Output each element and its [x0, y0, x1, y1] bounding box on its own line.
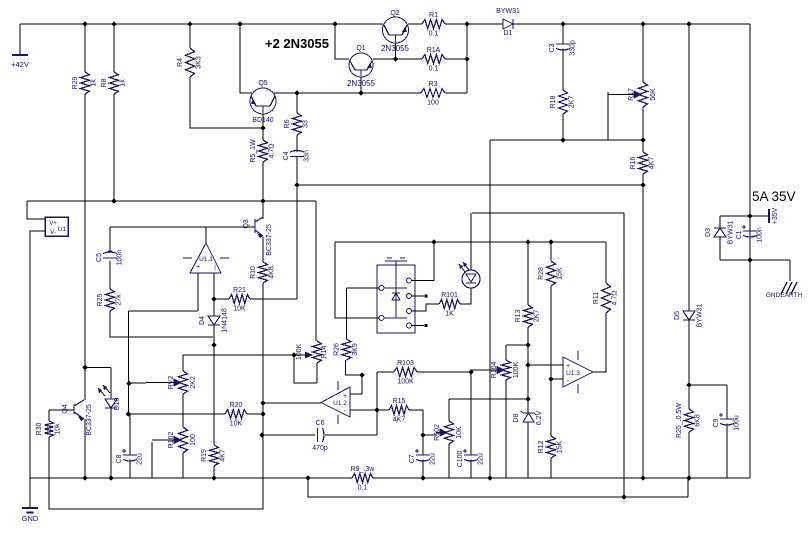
- wire relay contact to y242: [411, 242, 434, 281]
- wire y242 to R28: [550, 242, 552, 261]
- svg-text:R17: R17: [628, 88, 635, 101]
- svg-text:4K7: 4K7: [649, 157, 656, 170]
- potentiometer R14 100K: [313, 341, 322, 363]
- svg-text:4.7Ω: 4.7Ω: [612, 291, 619, 306]
- relay RE1: [377, 265, 415, 333]
- wire R10 to R21 node: [262, 283, 264, 299]
- svg-text:R11: R11: [593, 292, 600, 304]
- wire U1.1 output node y227: [110, 226, 254, 228]
- wire U1.3 - input: [552, 378, 563, 380]
- wire top rail R1 to D1: [445, 23, 503, 25]
- svg-text:6.2V: 6.2V: [536, 410, 543, 425]
- resistor R29: [81, 72, 90, 94]
- wire Q1 to Q2 node: [373, 58, 396, 60]
- svg-text:V-: V-: [50, 230, 56, 236]
- relay contact pins: [379, 286, 384, 291]
- wire to D10: [85, 367, 111, 369]
- svg-text:2K7: 2K7: [534, 310, 541, 323]
- junction + input/R26: [359, 372, 364, 377]
- resistor R1: [422, 20, 445, 29]
- junction rail/R8: [111, 21, 116, 26]
- junction D4 node: [211, 342, 216, 347]
- transistor Q4 BC337-25: [49, 409, 74, 411]
- svg-text:+2 2N3055: +2 2N3055: [265, 36, 329, 51]
- wire node y242 horizontal: [335, 241, 606, 243]
- wire R3 right: [445, 92, 467, 94]
- +42V supply terminal: [19, 24, 21, 55]
- svg-text:Q2: Q2: [390, 10, 399, 17]
- svg-text:R29: R29: [72, 76, 79, 89]
- diode D3: [714, 228, 726, 237]
- wire relay contact stub 2: [411, 325, 424, 327]
- svg-text:GNDEARTH: GNDEARTH: [766, 292, 803, 299]
- svg-text:R1A: R1A: [427, 47, 441, 54]
- capacitor C8: [123, 454, 137, 456]
- resistor R16: [639, 152, 648, 174]
- op-amp U1.2: [321, 387, 350, 417]
- capacitor C5: [103, 252, 117, 254]
- svg-text:R21: R21: [233, 287, 246, 294]
- junction Q2/Q1 rail: [393, 56, 398, 61]
- wire y399 R102 to D8: [449, 398, 528, 400]
- svg-text:0.1: 0.1: [358, 485, 368, 492]
- svg-text:+: +: [196, 264, 200, 271]
- op-amp U1.3: [563, 357, 593, 387]
- wire U1.2 - input: [350, 409, 377, 411]
- capacitor C7: [416, 454, 430, 456]
- svg-text:33: 33: [303, 120, 310, 128]
- junction C6 left: [259, 432, 264, 437]
- resistor R28: [547, 261, 556, 286]
- svg-text:R5_1W: R5_1W: [250, 139, 257, 163]
- resistor R101: [439, 300, 460, 309]
- resistor R10: [259, 262, 268, 283]
- svg-text:4K7: 4K7: [393, 417, 406, 424]
- svg-text:6K8: 6K8: [695, 414, 702, 427]
- svg-text:U1: U1: [58, 226, 67, 233]
- junction R20: [260, 411, 265, 416]
- wire R8 to node y201: [113, 94, 115, 201]
- svg-text:100K: 100K: [513, 362, 520, 379]
- wire C100 to ground rail: [470, 460, 472, 479]
- svg-text:R15: R15: [393, 398, 406, 405]
- capacitor C100: [464, 454, 478, 456]
- wire Q4 emitter to ground rail: [84, 419, 86, 478]
- wire R18 to y140 node: [562, 114, 564, 140]
- resistor R21: [229, 295, 250, 304]
- svg-text:+42V: +42V: [11, 60, 29, 69]
- svg-text:R30: R30: [36, 422, 43, 435]
- wire R104 top lead: [505, 345, 507, 360]
- svg-text:0.1: 0.1: [429, 66, 439, 73]
- wire D5 to R25 node: [688, 319, 690, 385]
- junction C7/ground: [420, 475, 425, 480]
- resistor R4: [186, 48, 195, 77]
- potentiometer R102: [179, 427, 188, 453]
- junction R28 top: [548, 239, 553, 244]
- svg-text:10K: 10K: [233, 306, 246, 313]
- svg-text:100K: 100K: [397, 379, 414, 386]
- terminal square 1: [424, 294, 427, 297]
- wire rail to C3: [562, 24, 564, 44]
- junction R8 bottom: [111, 198, 116, 203]
- wire RV2 to R102: [182, 394, 184, 427]
- wire - to R15: [377, 409, 389, 411]
- resistor R6: [293, 113, 302, 135]
- svg-text:C100: C100: [457, 451, 464, 468]
- junction R25/ground: [686, 475, 691, 480]
- wire R14 bottom lead: [316, 363, 318, 383]
- wire to V+ pin of U1 power box: [27, 201, 45, 219]
- svg-text:2K2: 2K2: [190, 376, 197, 389]
- svg-text:Q1: Q1: [356, 45, 365, 52]
- wire relay contact to R101: [411, 304, 439, 311]
- wire RV2 wiper to x129 column: [129, 382, 146, 384]
- resistor R15: [389, 406, 409, 415]
- wire R26 to U1.2 + node: [346, 360, 363, 375]
- resistor R12: [547, 436, 556, 458]
- junction rail/R4: [187, 21, 192, 26]
- wire rail to Q5 emitter: [240, 24, 252, 93]
- junction box bottom/x750: [747, 257, 752, 262]
- wire D10 top lead: [110, 368, 112, 400]
- svg-text:R4: R4: [177, 58, 184, 67]
- relay internal diode: [392, 293, 400, 300]
- wire R14 bottom loop: [294, 355, 317, 383]
- wire R101 to LED: [460, 288, 471, 304]
- transistor Q3 BC337-25: [230, 226, 255, 228]
- wire column to ground rail: [262, 414, 264, 478]
- svg-text:D8: D8: [513, 413, 520, 422]
- wire U1.1 + input down: [197, 273, 199, 311]
- wire R20 right: [247, 413, 262, 415]
- wire node y140 horizontal: [490, 139, 643, 141]
- svg-text:D4: D4: [199, 316, 206, 325]
- wire top rail left: [20, 23, 383, 25]
- wire D3 top lead: [719, 216, 721, 228]
- resistor R25 0.5W: [685, 409, 694, 432]
- wire to D4: [213, 299, 215, 316]
- resistor R103: [394, 368, 417, 377]
- junction Q4/ground: [82, 475, 87, 480]
- wire C6 left: [263, 434, 315, 436]
- wire: [262, 403, 264, 414]
- wire R102 to ground rail: [182, 453, 184, 478]
- svg-text:4K7: 4K7: [220, 449, 227, 462]
- wire R5 to node y201: [262, 162, 264, 201]
- junction - input: [548, 376, 553, 381]
- wire D3 bottom lead: [719, 236, 721, 260]
- junction D5/C9 line: [686, 382, 691, 387]
- junction Q1 base/R3 line: [358, 90, 363, 95]
- wire U1.2 + input up: [350, 375, 362, 394]
- junction C7/R102 wiper: [420, 432, 425, 437]
- junction x490/ground: [487, 475, 492, 480]
- svg-text:V+: V+: [49, 221, 57, 227]
- wire Q5 base lead: [262, 114, 264, 128]
- wire to C8: [129, 414, 131, 455]
- resistor R3: [421, 89, 445, 98]
- svg-text:R19: R19: [201, 449, 208, 462]
- junction rail/R17: [640, 21, 645, 26]
- svg-text:22u: 22u: [137, 453, 144, 465]
- wire C7 to ground rail: [422, 460, 424, 479]
- wire R30 down: [48, 437, 50, 478]
- op-amp power box U1 V+/V-: [45, 217, 68, 236]
- wire rail to R29: [84, 24, 86, 72]
- wire C100 top lead: [470, 372, 472, 455]
- resistor R19: [210, 445, 219, 466]
- wire lower ground return y509: [50, 478, 263, 509]
- resistor R9 3W: [352, 474, 373, 483]
- wire node y213 horizontal: [472, 212, 624, 214]
- wire rail to R8: [113, 24, 115, 72]
- wire R11 to U1.3 output: [593, 313, 606, 372]
- wire R29 to Q4 collector node: [84, 94, 86, 368]
- wire U1.1 output lead: [205, 227, 207, 243]
- wire C6 right to feedback column: [325, 434, 377, 436]
- junction y345: [525, 342, 530, 347]
- wire R103 to wiper node: [417, 371, 471, 373]
- wire R20 left: [130, 413, 225, 415]
- resistor R18: [559, 90, 568, 114]
- junction R103/R104 wiper/C100: [468, 369, 473, 374]
- resistor R11: [602, 283, 611, 313]
- potentiometer R17 56K: [639, 82, 648, 107]
- wire Q4 base to R30: [48, 410, 50, 421]
- junction x624/y497: [621, 494, 626, 499]
- svg-text:10k: 10k: [55, 423, 62, 435]
- svg-text:33n: 33n: [304, 150, 311, 162]
- resistor R20: [225, 410, 247, 419]
- wire D3 box bottom to earth: [720, 259, 790, 261]
- wire R104 bottom to ground rail: [505, 380, 507, 478]
- wire D3 box top: [720, 215, 750, 217]
- wire C9 top lead: [726, 385, 728, 419]
- junction R18/y140: [560, 137, 565, 142]
- svg-text:C8: C8: [116, 454, 123, 463]
- svg-text:R13: R13: [515, 309, 522, 322]
- svg-text:C1: C1: [736, 230, 743, 239]
- wire to R5: [262, 128, 264, 140]
- capacitor C6: [317, 428, 319, 442]
- junction C4/y185: [294, 182, 299, 187]
- svg-text:U1.1: U1.1: [199, 256, 213, 263]
- svg-text:3K9: 3K9: [352, 343, 359, 356]
- wire R102 bottom to ground rail: [448, 444, 450, 478]
- resistor R1A: [422, 55, 445, 64]
- junction R15/- input: [374, 407, 379, 412]
- wire to C9: [689, 384, 727, 386]
- wire rail down to Q1: [335, 24, 349, 59]
- wire R102 wiper to ground rail: [151, 442, 153, 478]
- wire y242 corner to relay contact: [335, 242, 379, 318]
- junction rail to Q1: [332, 21, 337, 26]
- svg-text:100n: 100n: [757, 227, 764, 243]
- svg-text:R28: R28: [538, 267, 545, 280]
- svg-text:100K: 100K: [296, 344, 303, 361]
- wire y242 to R11: [605, 242, 607, 283]
- wire to R25: [688, 385, 690, 409]
- wire return y497: [308, 478, 688, 497]
- svg-text:C7: C7: [409, 454, 416, 463]
- wire top rail D1 to right corner: [513, 23, 750, 25]
- junction D10/ground: [108, 475, 113, 480]
- wire x643 down to ground rail: [642, 185, 644, 478]
- wire right join column R1/R1A/R3: [466, 24, 468, 93]
- svg-text:R20: R20: [230, 402, 243, 409]
- wire feedback column x377: [376, 372, 378, 435]
- junction - input/R21/D4: [211, 296, 216, 301]
- capacitor C9: [720, 418, 734, 420]
- wire D4 to R19: [213, 325, 215, 445]
- svg-text:3K3: 3K3: [196, 56, 203, 69]
- capacitor C1: [743, 230, 757, 232]
- svg-text:U1.3: U1.3: [566, 370, 580, 377]
- wire Q4 collector: [84, 368, 86, 401]
- junction Q5 base/R4/R5: [260, 125, 265, 130]
- svg-text:1N4148: 1N4148: [222, 308, 229, 333]
- junction R19/ground: [211, 475, 216, 480]
- wire R30 to y509 return: [49, 478, 50, 509]
- wire top rail between Q2 and R1: [408, 23, 422, 25]
- svg-text:C9: C9: [713, 418, 720, 427]
- wire D8 to ground rail: [527, 422, 529, 478]
- svg-text:R25_.0.5W: R25_.0.5W: [676, 403, 683, 438]
- wire C3 to R18: [562, 49, 564, 91]
- svg-text:10K: 10K: [230, 421, 243, 428]
- junction C1 top: [747, 213, 752, 218]
- wire LED top to y213: [470, 213, 472, 270]
- diode D4: [208, 316, 220, 325]
- svg-text:330p: 330p: [570, 40, 577, 56]
- svg-text:R6: R6: [284, 119, 291, 128]
- svg-text:22u: 22u: [430, 453, 437, 465]
- wire y497 up to rail: [687, 478, 689, 497]
- ground GND EARTH: [789, 260, 791, 281]
- ground GND bottom left: [29, 478, 31, 507]
- svg-text:R3: R3: [429, 81, 438, 88]
- wire to R102 pot wiper: [423, 434, 437, 436]
- wire down Q3 column to U1.2 output node: [262, 299, 264, 403]
- svg-text:27k: 27k: [116, 294, 123, 306]
- wire U1.3 + input: [528, 364, 563, 366]
- svg-text:R25: R25: [97, 293, 104, 306]
- wire relay contact to R26 column: [347, 287, 380, 289]
- svg-text:56K: 56K: [650, 88, 657, 101]
- junction R1A right: [464, 56, 469, 61]
- wire R3 line left part: [297, 92, 361, 94]
- wire to R6: [296, 93, 298, 113]
- wire R21 to C4 column: [250, 298, 297, 300]
- wire rail to R4: [189, 24, 191, 48]
- svg-text:Q5: Q5: [258, 80, 267, 87]
- junction RV2 wiper: [126, 381, 131, 386]
- wire rail down to D5: [688, 24, 690, 311]
- wire U1.2 output to x263 column: [263, 402, 321, 404]
- junction y201/R5/Q3: [260, 198, 265, 203]
- resistor R5 1W: [259, 140, 268, 162]
- junction relay/y242: [431, 239, 436, 244]
- resistor R26 3K9: [342, 339, 351, 360]
- svg-text:C5: C5: [96, 253, 103, 262]
- junction y497 branch: [305, 475, 310, 480]
- wire + input to x129 column: [129, 310, 199, 312]
- svg-text:100: 100: [190, 434, 197, 446]
- wire R25 to D4 column: [110, 311, 213, 337]
- wire U1.1 - input down: [213, 273, 215, 299]
- junction rail/R1 column: [464, 21, 469, 26]
- svg-text:R102: R102: [434, 424, 441, 441]
- wire node to Q3 collector: [262, 201, 264, 219]
- wire node y185 horizontal: [297, 184, 643, 186]
- relay coil top bar: [385, 258, 407, 261]
- svg-text:100: 100: [427, 100, 439, 107]
- junction x643/ground: [640, 475, 645, 480]
- svg-text:15K: 15K: [557, 267, 564, 280]
- resistor R13: [524, 305, 533, 327]
- svg-text:BYW31: BYW31: [728, 221, 735, 245]
- svg-text:+: +: [343, 393, 347, 400]
- wire x490 column down to ground rail: [489, 140, 491, 478]
- svg-text:100n: 100n: [117, 250, 124, 266]
- diode D5: [683, 311, 695, 320]
- svg-text:R26: R26: [334, 343, 341, 356]
- junction rail/D5 column: [686, 21, 691, 26]
- svg-text:Q4: Q4: [62, 404, 69, 413]
- svg-text:100u: 100u: [734, 415, 741, 431]
- svg-text:4K8: 4K8: [269, 266, 276, 279]
- output terminal +35V: [750, 215, 769, 217]
- wire node y201 horizontal: [27, 200, 316, 202]
- svg-text:0.1: 0.1: [429, 31, 439, 38]
- wire x129 column down: [128, 311, 130, 414]
- svg-text:R101: R101: [441, 292, 458, 299]
- R14 wiper wire: [183, 354, 305, 356]
- wire main output column x750: [749, 24, 751, 478]
- svg-text:R103: R103: [397, 360, 414, 367]
- svg-text:R104: R104: [491, 362, 498, 379]
- terminal square 2: [424, 324, 427, 327]
- svg-text:15K: 15K: [557, 440, 564, 453]
- wire R17 bottom to y140: [642, 107, 644, 140]
- wire R6 to C4: [296, 135, 298, 152]
- junction rail/R29: [82, 21, 87, 26]
- wire R25 to ground rail: [688, 432, 690, 478]
- potentiometer RV2 2K2: [179, 371, 188, 394]
- wire wiper node to RV2: [182, 355, 184, 371]
- transistor Q5 BD140: [250, 88, 276, 114]
- wire R15 right to C7 column: [409, 410, 423, 435]
- svg-text:GND: GND: [22, 514, 39, 523]
- wire y201 corner down to R14 top: [315, 201, 317, 341]
- junction U1.2 output: [260, 400, 265, 405]
- junction R16/y185: [640, 182, 645, 187]
- resistor R30: [45, 421, 54, 437]
- svg-text:R102: R102: [168, 432, 175, 449]
- wire to D8: [527, 399, 529, 413]
- svg-text:R9_.3w: R9_.3w: [351, 466, 376, 473]
- svg-text:RV2: RV2: [168, 376, 175, 390]
- wire y242 to R13: [527, 242, 529, 305]
- svg-text:2K7: 2K7: [569, 96, 576, 109]
- svg-text:U1.2: U1.2: [333, 400, 347, 407]
- diode D1 BYW31: [503, 19, 513, 29]
- wire y140 to R16: [642, 140, 644, 152]
- svg-text:BYW31: BYW31: [697, 304, 704, 328]
- svg-text:4.7Ω: 4.7Ω: [269, 144, 276, 159]
- svg-text:R18: R18: [550, 95, 557, 108]
